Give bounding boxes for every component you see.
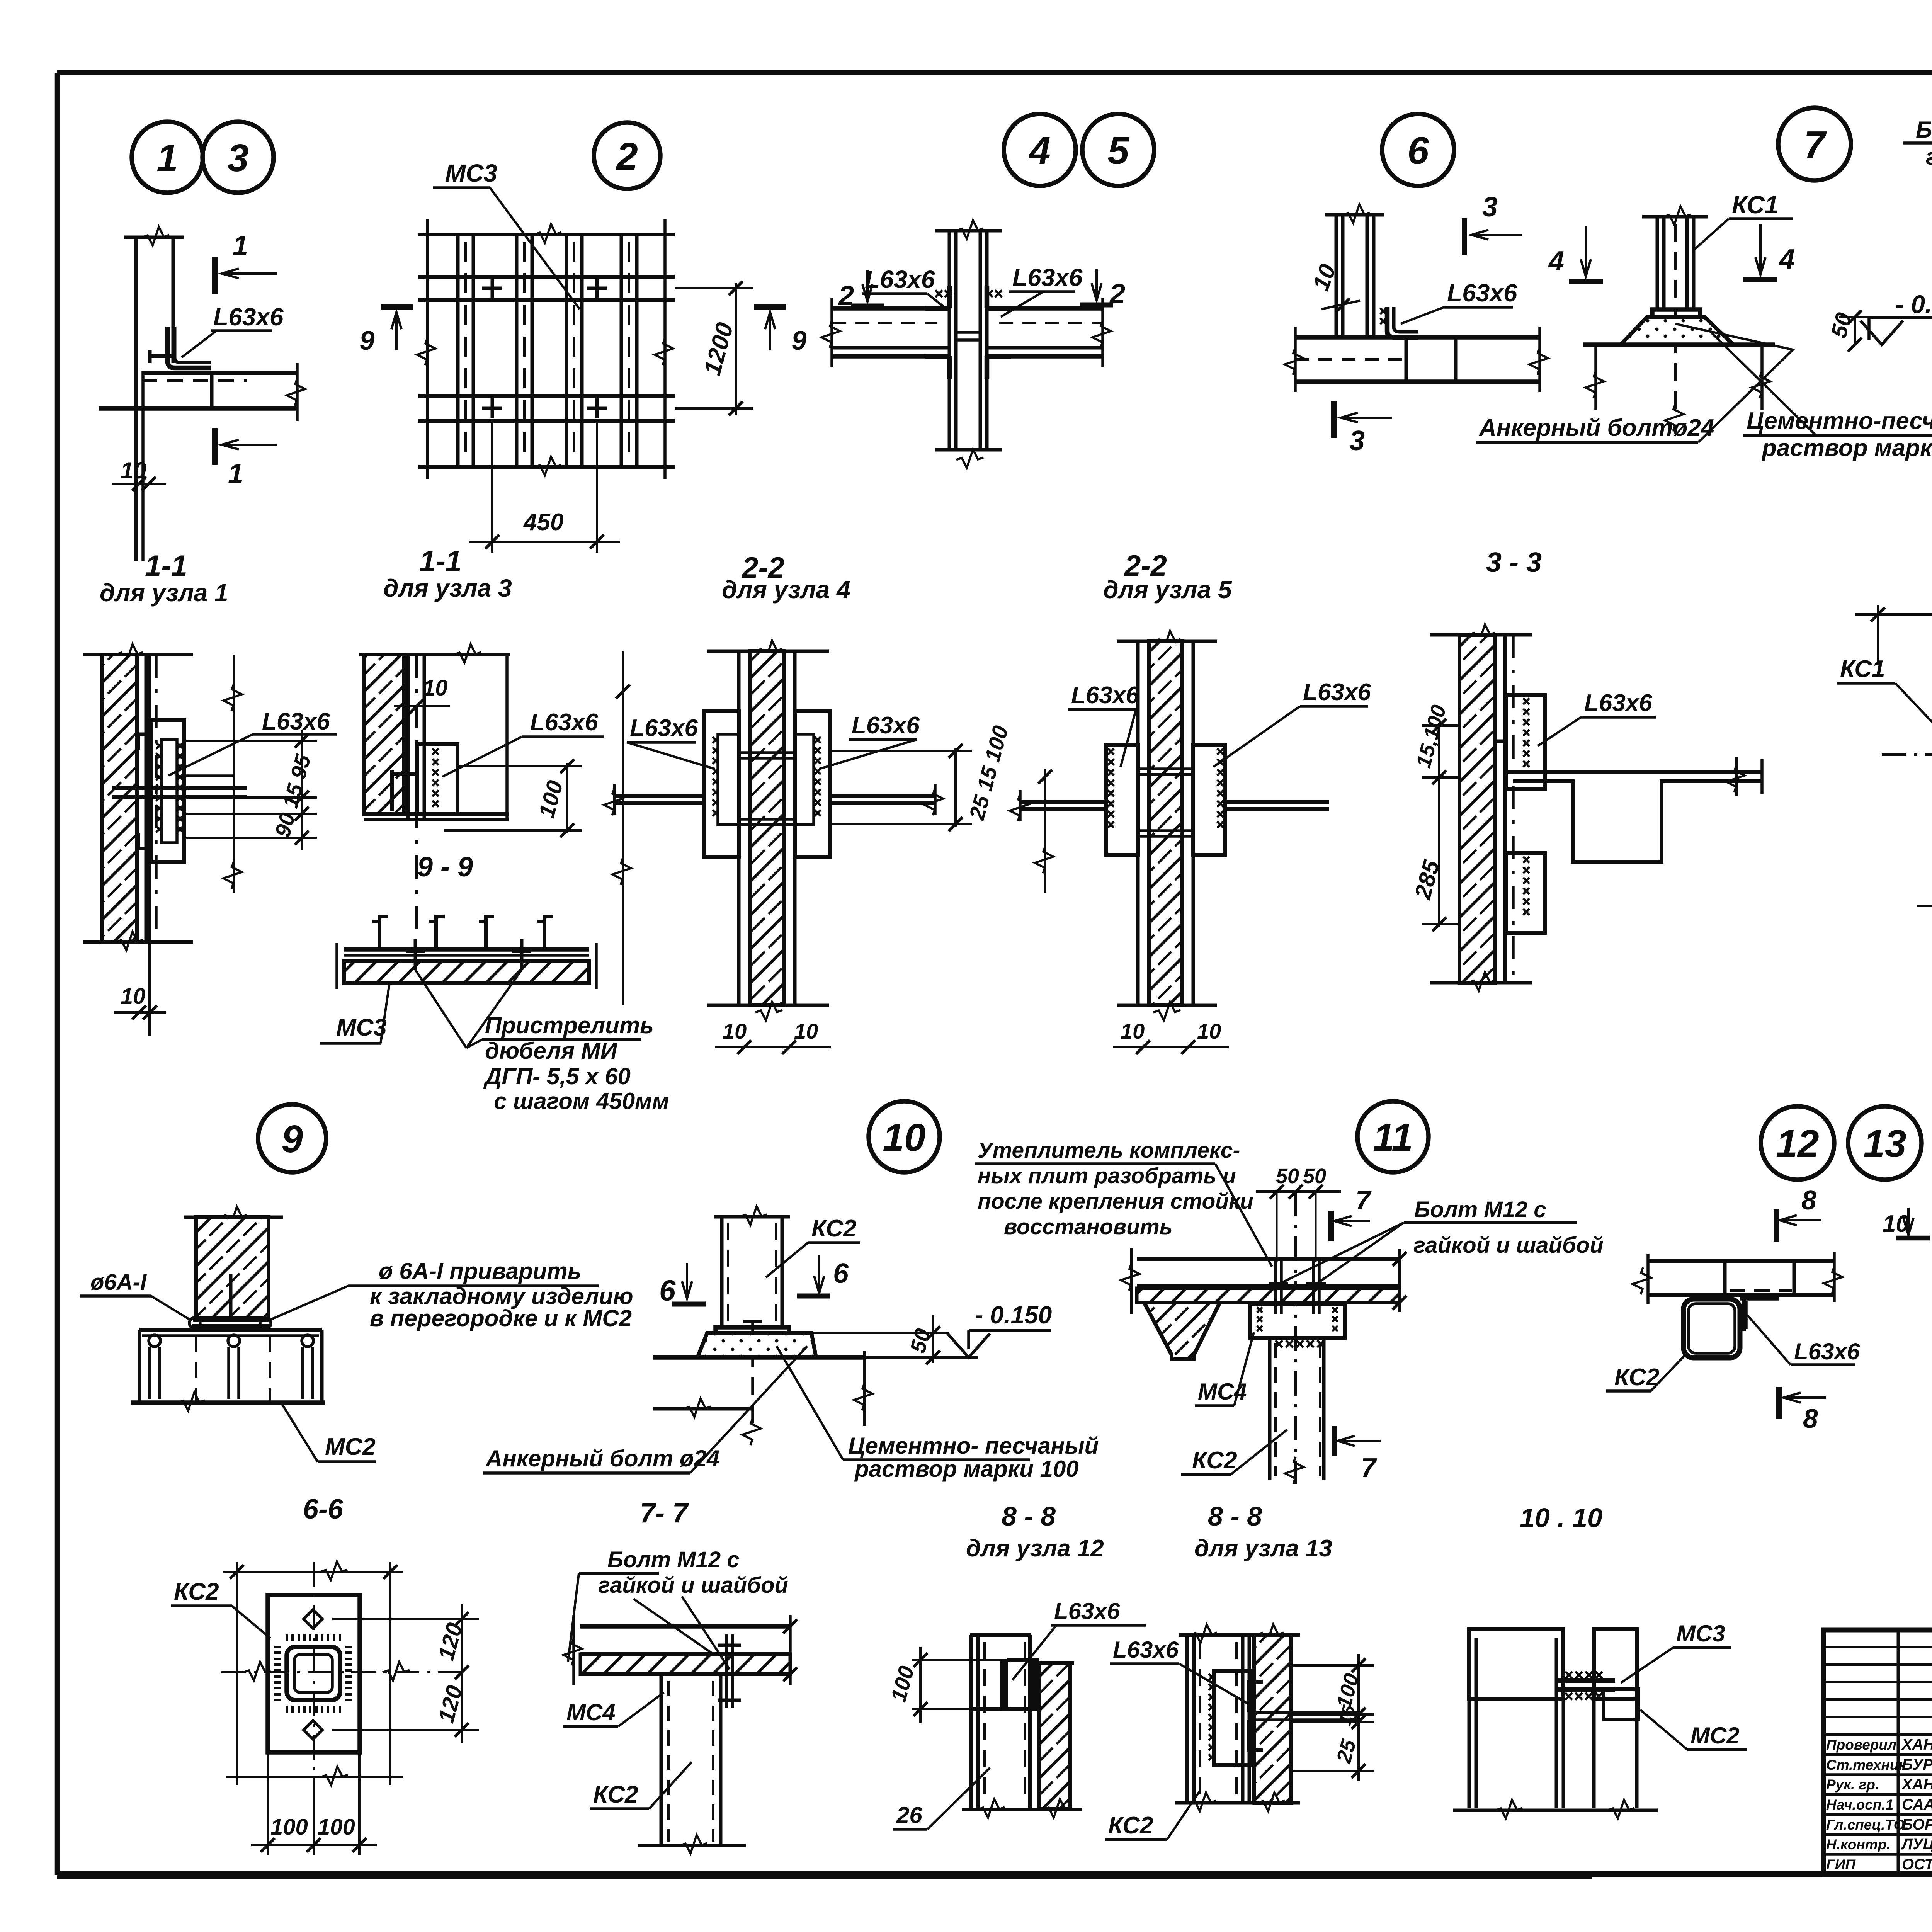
section 8 marks node12-13: [1774, 1209, 1779, 1242]
svg-text:2: 2: [616, 135, 638, 178]
svg-text:дюбеля МИ: дюбеля МИ: [485, 1038, 618, 1064]
anchor pin f6A-I node9: [229, 1274, 233, 1317]
svg-text:26: 26: [896, 1802, 922, 1828]
svg-text:Ст.техник: Ст.техник: [1826, 1757, 1906, 1773]
svg-text:КС2: КС2: [593, 1781, 638, 1808]
slab edge lines 1-1 node1: [112, 786, 247, 790]
svg-text:10 . 10: 10 . 10: [1520, 1503, 1602, 1533]
section mark 9 left: [381, 304, 413, 310]
square tube below slab node12-13: [1684, 1299, 1740, 1358]
svg-text:9: 9: [281, 1117, 303, 1161]
svg-text:КС2: КС2: [1614, 1364, 1660, 1391]
base plate node9: [193, 1318, 269, 1322]
dowel marks 9-9: [414, 939, 417, 970]
svg-text:7: 7: [1804, 123, 1827, 167]
svg-text:6: 6: [1407, 129, 1429, 172]
svg-text:9: 9: [360, 325, 375, 355]
svg-text:для узла 13: для узла 13: [1194, 1535, 1332, 1562]
svg-text:Болт М12 с: Болт М12 с: [607, 1547, 739, 1572]
right plate 2-2 node5: [1193, 745, 1225, 855]
svg-text:восстановить: восстановить: [1004, 1214, 1173, 1239]
dim 50 node7: [1854, 317, 1856, 345]
svg-text:8 - 8: 8 - 8: [1002, 1501, 1056, 1531]
angles node13: [1249, 1682, 1263, 1712]
main title block frame: [1823, 1630, 1932, 1874]
weld ticks around tube 6-6: [274, 1634, 352, 1713]
node 7 drawing: column on foundation with mortar pad: [1642, 215, 1708, 219]
svg-text:КС1: КС1: [1840, 656, 1885, 682]
section marks 4-4 node7: [1569, 279, 1603, 284]
svg-text:3: 3: [1349, 425, 1365, 456]
svg-text:СААКЬЯНЦ: СААКЬЯНЦ: [1902, 1796, 1932, 1813]
svg-text:для узла 1: для узла 1: [100, 579, 228, 607]
svg-text:9 - 9: 9 - 9: [417, 852, 473, 883]
svg-text:Болт М12 с: Болт М12 с: [1414, 1197, 1546, 1222]
svg-text:100: 100: [270, 1815, 308, 1840]
square tube section 6-6: [287, 1647, 340, 1700]
svg-text:L63x6: L63x6: [865, 265, 935, 293]
ties 2-2 node5: [1138, 767, 1193, 770]
svg-text:5: 5: [1107, 129, 1129, 172]
svg-text:МС3: МС3: [1676, 1621, 1725, 1646]
mortar pad node10: [697, 1333, 816, 1357]
svg-text:ХАНИН: ХАНИН: [1901, 1736, 1932, 1753]
svg-text:L63x6: L63x6: [262, 708, 330, 735]
svg-text:МС4: МС4: [566, 1699, 616, 1725]
svg-text:8: 8: [1801, 1185, 1816, 1215]
svg-text:ГИП: ГИП: [1826, 1857, 1856, 1872]
svg-text:L63х6: L63х6: [1113, 1637, 1179, 1663]
svg-text:КС2: КС2: [1108, 1812, 1153, 1839]
svg-text:Цементно-песчаный: Цементно-песчаный: [1747, 408, 1932, 434]
svg-text:L63x6: L63x6: [1447, 279, 1517, 307]
slab node6: [1295, 335, 1540, 340]
title block left blank rows: [1823, 1646, 1932, 1648]
ext lines and dim 4-4 top: [1877, 605, 1879, 665]
svg-text:КС2: КС2: [174, 1578, 219, 1605]
svg-text:L63x6: L63x6: [213, 303, 284, 331]
svg-text:Гл.спец.ТО.: Гл.спец.ТО.: [1826, 1817, 1909, 1833]
svg-text:450: 450: [523, 509, 563, 536]
svg-text:Анкерный болт ø24: Анкерный болт ø24: [485, 1446, 719, 1471]
svg-text:10: 10: [121, 984, 146, 1009]
dim 50 node10: [932, 1315, 934, 1363]
angle and wall node12: [1031, 1660, 1035, 1709]
mortar pad node7: [1621, 317, 1733, 345]
section 7-7: slab with hatch and T column below: [580, 1624, 790, 1629]
section 3-3: wall with plates and floor recess: [1430, 633, 1532, 637]
svg-text:3: 3: [1482, 192, 1498, 223]
section mark 1-1 bottom: [212, 428, 218, 465]
node 2 horizontal straps with + marks: [418, 275, 675, 279]
svg-text:ОСТАШЕВСКИЙ: ОСТАШЕВСКИЙ: [1902, 1855, 1932, 1873]
svg-text:Пристрелить: Пристрелить: [485, 1012, 654, 1038]
sheet border frame: [57, 70, 1932, 75]
plate 1-1 node3: [417, 744, 457, 814]
svg-text:1: 1: [228, 458, 243, 489]
svg-text:L63x6: L63x6: [1071, 682, 1139, 709]
embedded slab node9: [139, 1328, 322, 1332]
svg-text:Утеплитель комплекс-: Утеплитель комплекс-: [978, 1138, 1240, 1163]
dims 100 100 6-6: [267, 1752, 269, 1855]
svg-text:7: 7: [1361, 1452, 1377, 1483]
T column below 7-7: [660, 1674, 663, 1845]
dims 120 120 6-6: [461, 1604, 463, 1743]
angle right of tube node12-13: [1740, 1298, 1779, 1331]
svg-text:50: 50: [1276, 1165, 1299, 1188]
svg-text:в перегородке и к МС2: в перегородке и к МС2: [370, 1305, 632, 1331]
svg-text:с шагом 450мм: с шагом 450мм: [494, 1088, 669, 1114]
svg-text:L63х6: L63х6: [852, 712, 920, 739]
svg-text:Цементно- песчаный: Цементно- песчаный: [848, 1433, 1099, 1459]
svg-text:Проверил: Проверил: [1826, 1737, 1896, 1753]
detail marker circle 9: [258, 1104, 326, 1172]
svg-text:6: 6: [833, 1258, 849, 1289]
svg-text:- 0.150: - 0.150: [1895, 290, 1932, 318]
rebar dowels node9: [149, 1335, 160, 1347]
svg-text:- 0.150: - 0.150: [975, 1301, 1052, 1329]
svg-text:L63x6: L63x6: [530, 709, 598, 736]
plate and fasteners 1-1 node1: [151, 720, 184, 862]
svg-text:L63x6: L63x6: [630, 715, 698, 742]
svg-text:КС2: КС2: [1192, 1447, 1237, 1474]
section 2-2 node4: wall with plates both sides: [707, 650, 829, 653]
slab lines 2-2 node4: [614, 794, 704, 798]
svg-text:после крепления стойки: после крепления стойки: [978, 1189, 1253, 1214]
svg-text:Нач.осп.1: Нач.осп.1: [1826, 1797, 1893, 1813]
svg-text:10: 10: [1121, 1019, 1145, 1043]
svg-text:13: 13: [1863, 1122, 1906, 1165]
svg-text:10: 10: [423, 675, 448, 701]
floor lines with recess 3-3: [1505, 770, 1762, 774]
svg-text:L63х6: L63х6: [1303, 679, 1371, 706]
svg-text:8: 8: [1803, 1403, 1818, 1434]
node 10 drawing: column KC2 on foundation: [714, 1215, 790, 1219]
svg-text:4: 4: [1548, 246, 1564, 277]
T-beam rib hatched node11: [1144, 1303, 1220, 1359]
svg-text:ЛУЦЕНКО: ЛУЦЕНКО: [1901, 1836, 1932, 1853]
detail marker circle 6: [1382, 114, 1454, 186]
svg-text:9: 9: [792, 325, 807, 355]
svg-text:3 - 3: 3 - 3: [1486, 547, 1542, 578]
foundation line node7: [1583, 342, 1775, 347]
dims right node13 sect: [1357, 1654, 1360, 1781]
svg-text:Анкерный болтø24: Анкерный болтø24: [1478, 415, 1714, 441]
angle L63x6 node6: [1387, 307, 1418, 337]
svg-text:для узла 12: для узла 12: [966, 1535, 1104, 1562]
section mark 1-1 top: [212, 257, 218, 294]
section 1-1 node3: hatched corner wall: [359, 653, 510, 656]
svg-text:L63x6: L63x6: [1794, 1338, 1860, 1364]
bolts node11: [1274, 1260, 1277, 1314]
svg-text:10: 10: [794, 1019, 818, 1043]
axes 6-6: [313, 1562, 315, 1852]
detail marker circle 2: [594, 122, 660, 189]
node 1 drawing: wall panel with L63x6 angle on slab: [124, 236, 184, 239]
svg-text:6-6: 6-6: [303, 1494, 344, 1525]
svg-text:гайкой и шайбой: гайкой и шайбой: [1413, 1233, 1604, 1258]
svg-text:ДГП- 5,5 х 60: ДГП- 5,5 х 60: [483, 1063, 631, 1089]
detail marker circles 1 and 3: [132, 122, 203, 193]
dowel balls node9: [189, 1318, 200, 1328]
svg-text:КС1: КС1: [1732, 191, 1778, 219]
svg-text:Рук. гр.: Рук. гр.: [1826, 1777, 1879, 1793]
bolt through slab 7-7: [725, 1634, 728, 1708]
svg-text:гайкой и шайбой: гайкой и шайбой: [598, 1573, 788, 1598]
section 7 marks node11: [1328, 1211, 1334, 1241]
section marks 3-3 node6: [1462, 218, 1467, 255]
angle 1-1 node3: [390, 770, 394, 811]
MC4 plate node11: [1250, 1304, 1345, 1338]
section 1-1 node1: hatched wall with connection plate: [83, 653, 193, 656]
svg-text:3: 3: [227, 136, 249, 180]
node 9 drawing: masonry pier on embedded base: [184, 1216, 283, 1219]
svg-text:МС3: МС3: [445, 159, 497, 187]
svg-text:7: 7: [1355, 1185, 1372, 1215]
detail marker circle 11: [1357, 1101, 1429, 1172]
ties through wall 2-2 node4: [739, 751, 795, 754]
detail marker circle 7: [1778, 108, 1851, 180]
section 10-10: two wall panels with MC3/MC2 plates: [1469, 1629, 1563, 1699]
connection plate 10-10: [1556, 1678, 1615, 1683]
label anchor bolt node10 (leader only): [483, 1471, 690, 1475]
svg-text:7- 7: 7- 7: [640, 1498, 689, 1529]
floor lines node13: [1252, 1711, 1360, 1714]
svg-text:раствор марки 100: раствор марки 100: [1761, 435, 1932, 461]
section 6-6: base plate plan with square column: [268, 1595, 360, 1752]
left plate 2-2 node5: [1106, 745, 1138, 855]
svg-text:10: 10: [883, 1116, 925, 1159]
section 8-8 node13: tube column with angle to hatched wall: [1179, 1633, 1300, 1637]
dims right 2-2 node4: [954, 748, 957, 827]
detail marker circles 4 and 5: [1004, 114, 1076, 186]
channel clips on deck 9-9: [372, 917, 388, 949]
svg-text:ø6А-I: ø6А-I: [90, 1270, 147, 1295]
svg-text:4: 4: [1779, 244, 1795, 275]
node 2 drawing: MC3 channel grid plan: [418, 233, 675, 236]
svg-text:10: 10: [723, 1019, 747, 1043]
section 8-8 node12: tube column with angle to wall: [970, 1633, 1031, 1637]
left ext 2-2 node5: [1044, 769, 1046, 893]
section 2-2 node5: wall with small plates: [1117, 640, 1217, 643]
svg-text:МС3: МС3: [336, 1014, 387, 1041]
dim 100 node12 sect: [912, 1659, 1007, 1661]
svg-text:ХАНИН: ХАНИН: [1901, 1776, 1932, 1793]
ground line node10: [653, 1355, 864, 1360]
svg-text:БУРШИНА: БУРШИНА: [1902, 1756, 1932, 1773]
plate node13: [1214, 1671, 1252, 1765]
svg-text:МС2: МС2: [325, 1434, 376, 1460]
svg-text:12: 12: [1776, 1122, 1819, 1165]
dim 100 node3: [566, 763, 568, 833]
svg-text:4: 4: [1028, 129, 1051, 172]
svg-text:Болт М12 с: Болт М12 с: [1916, 117, 1932, 143]
node 4-5 drawing: column crossing slab with angles: [935, 229, 1002, 233]
svg-text:Н.контр.: Н.контр.: [1826, 1837, 1890, 1852]
svg-text:1-1: 1-1: [419, 545, 462, 578]
base plate node7: [1652, 310, 1700, 317]
detail marker circle 10: [869, 1101, 940, 1172]
slab lines 2-2 node5: [1020, 800, 1106, 804]
section 9-9: profiled deck on slab: [344, 947, 589, 952]
svg-text:для узла 3: для узла 3: [383, 574, 512, 602]
svg-text:50: 50: [1303, 1165, 1326, 1188]
left plate 2-2 node4: [704, 711, 739, 857]
svg-text:L63x6: L63x6: [1012, 264, 1083, 291]
svg-text:для узла 5: для узла 5: [1103, 576, 1232, 604]
svg-text:МС2: МС2: [1690, 1723, 1740, 1748]
svg-text:10: 10: [1197, 1019, 1221, 1043]
left ext line 2-2 node4: [622, 651, 624, 1005]
section 11: slab with T-beam and column KC2: [1137, 1257, 1400, 1261]
svg-text:ных плит разобрать и: ных плит разобрать и: [978, 1163, 1236, 1188]
detail marker circles 12 and 13: [1761, 1106, 1834, 1180]
base plate node10: [716, 1327, 789, 1333]
svg-text:8 - 8: 8 - 8: [1208, 1501, 1262, 1531]
dims right 1-1 node1: [233, 655, 235, 893]
lower plate 3-3: [1506, 853, 1545, 933]
title block left columns: [1897, 1630, 1900, 1874]
weld seam node12: [1001, 1660, 1007, 1710]
svg-text:100: 100: [318, 1815, 355, 1840]
dim 1200 node2: [735, 283, 737, 415]
svg-text:гайкой и: гайкой и: [1926, 144, 1932, 170]
svg-text:11: 11: [1373, 1116, 1413, 1159]
svg-text:ø 6А-I приварить: ø 6А-I приварить: [379, 1258, 581, 1284]
title block name rows: [1823, 1733, 1932, 1736]
svg-text:для узла 4: для узла 4: [722, 576, 850, 604]
upper plate 3-3: [1506, 695, 1545, 789]
svg-text:1-1: 1-1: [145, 549, 187, 582]
svg-text:КС2: КС2: [811, 1215, 857, 1242]
section mark 9 right: [754, 304, 786, 310]
svg-text:1: 1: [233, 230, 248, 261]
svg-text:1: 1: [156, 136, 178, 180]
right plate 2-2 node4: [795, 711, 830, 857]
dim 450 node2: [491, 421, 493, 553]
svg-text:L63x6: L63x6: [1054, 1598, 1120, 1624]
node 12-13 drawing: slab with square tube KC2 and angle: [1648, 1259, 1834, 1263]
svg-text:L63x6: L63x6: [1584, 690, 1652, 716]
node 6 drawing: column base with angle on slab: [1325, 213, 1384, 217]
dims left 3-3: [1438, 723, 1440, 927]
bolt diamonds 6-6: [304, 1610, 322, 1628]
column below node11: [1268, 1338, 1272, 1480]
svg-text:БОРОЧЕНКО: БОРОЧЕНКО: [1902, 1816, 1932, 1833]
